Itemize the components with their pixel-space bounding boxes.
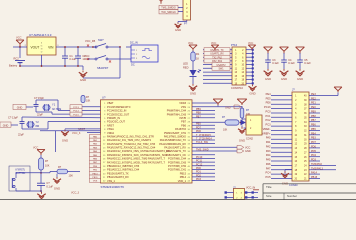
svg-text:GND: GND bbox=[190, 92, 196, 96]
svg-text:10K: 10K bbox=[45, 165, 50, 168]
svg-text:PD3: PD3 bbox=[311, 159, 316, 162]
svg-text:PB8: PB8 bbox=[196, 112, 201, 115]
svg-text:C?: C? bbox=[46, 181, 50, 185]
svg-text:PA13/USBDP/CAN_TX: PA13/USBDP/CAN_TX bbox=[160, 138, 187, 142]
svg-text:PE3: PE3 bbox=[311, 93, 316, 96]
svg-text:PD2: PD2 bbox=[196, 174, 201, 177]
svg-text:PC8/TIM8_CH3: PC8/TIM8_CH3 bbox=[168, 160, 187, 164]
svg-text:PC6/TIM8_CH1: PC6/TIM8_CH1 bbox=[168, 168, 187, 172]
svg-text:VSSA: VSSA bbox=[107, 127, 114, 131]
svg-text:PB1/ADC12_IN9/TIM3_CH4: PB1/ADC12_IN9/TIM3_CH4 bbox=[107, 168, 140, 172]
svg-text:PE4: PE4 bbox=[266, 92, 271, 96]
svg-text:0.1uF: 0.1uF bbox=[272, 61, 279, 65]
svg-text:10K: 10K bbox=[223, 129, 228, 132]
svg-text:PD6: PD6 bbox=[311, 145, 316, 148]
svg-text:PD4: PD4 bbox=[311, 154, 316, 157]
svg-text:PA6/ADC12_IN6/SPI1_MISO_TIM3: PA6/ADC12_IN6/SPI1_MISO_TIM3 PA6/USART_T bbox=[107, 157, 165, 161]
svg-text:PA5/ADC12_IN5/SPI1_SCK_USTNE: PA5/ADC12_IN5/SPI1_SCK_USTNE PA5/SPI1_SC… bbox=[107, 153, 167, 157]
svg-text:VSS: VSS bbox=[181, 105, 186, 109]
svg-text:PB6: PB6 bbox=[311, 124, 316, 127]
svg-text:Number: Number bbox=[287, 194, 297, 198]
svg-text:GND: GND bbox=[239, 139, 245, 143]
svg-text:PA5: PA5 bbox=[266, 158, 271, 162]
svg-text:10K: 10K bbox=[69, 175, 74, 178]
svg-text:PE2: PE2 bbox=[311, 97, 316, 100]
svg-text:PD6: PD6 bbox=[196, 130, 201, 133]
svg-text:VCC: VCC bbox=[245, 146, 250, 149]
svg-text:GND: GND bbox=[54, 187, 60, 191]
svg-text:22pF: 22pF bbox=[37, 113, 43, 117]
svg-text:PE6: PE6 bbox=[266, 101, 271, 105]
svg-text:PB3: PB3 bbox=[311, 137, 316, 140]
svg-text:GND: GND bbox=[249, 92, 255, 96]
svg-text:CON2: CON2 bbox=[246, 137, 254, 140]
svg-text:PA15/TDI: PA15/TDI bbox=[175, 127, 186, 131]
svg-text:PC11: PC11 bbox=[196, 160, 203, 163]
svg-text:VREF+: VREF+ bbox=[262, 131, 271, 135]
svg-text:LED: LED bbox=[183, 62, 188, 66]
svg-text:PA7: PA7 bbox=[266, 166, 271, 170]
svg-text:R1: R1 bbox=[196, 52, 200, 56]
svg-text:PA0WKUP/ADC12_IN0_TIM2_CH1_ETR: PA0WKUP/ADC12_IN0_TIM2_CH1_ETR bbox=[107, 135, 154, 139]
svg-text:TMS/PD2: TMS/PD2 bbox=[311, 163, 322, 166]
svg-text:PWM/USART_CH1: PWM/USART_CH1 bbox=[164, 131, 187, 135]
svg-text:RED: RED bbox=[183, 66, 189, 70]
svg-text:PD5: PD5 bbox=[311, 150, 316, 153]
svg-text:1K: 1K bbox=[196, 57, 199, 61]
svg-text:VOUT: VOUT bbox=[31, 46, 40, 50]
svg-text:GND: GND bbox=[17, 107, 23, 110]
svg-text:VDD_1: VDD_1 bbox=[178, 179, 187, 183]
svg-text:PA14: PA14 bbox=[311, 172, 318, 175]
svg-text:VIN: VIN bbox=[48, 46, 54, 50]
svg-text:PA10/USART1_RX: PA10/USART1_RX bbox=[164, 146, 186, 150]
svg-text:VCC_FB: VCC_FB bbox=[85, 39, 95, 43]
svg-text:PA0: PA0 bbox=[266, 136, 271, 140]
svg-text:VCC_IN: VCC_IN bbox=[246, 187, 255, 190]
svg-text:PC13/TAMPER-RTC: PC13/TAMPER-RTC bbox=[107, 105, 131, 109]
svg-text:PE5: PE5 bbox=[266, 96, 271, 100]
svg-text:8M: 8M bbox=[36, 124, 40, 128]
svg-text:SW?: SW? bbox=[98, 38, 104, 42]
svg-text:PD0WK_IN: PD0WK_IN bbox=[107, 116, 120, 120]
svg-text:T_JTCK/PA14: T_JTCK/PA14 bbox=[196, 138, 212, 141]
svg-text:PC1: PC1 bbox=[265, 114, 271, 118]
svg-text:PA2: PA2 bbox=[266, 144, 271, 148]
svg-text:PC7/TIM8_CH2: PC7/TIM8_CH2 bbox=[168, 164, 187, 168]
svg-text:RC2: RC2 bbox=[14, 57, 20, 61]
svg-text:PD3: PD3 bbox=[196, 178, 201, 181]
svg-text:PC12: PC12 bbox=[196, 163, 203, 166]
svg-text:PD7: PD7 bbox=[196, 126, 201, 129]
svg-text:C3: C3 bbox=[272, 58, 276, 62]
svg-text:GND: GND bbox=[281, 77, 287, 81]
svg-text:GND: GND bbox=[297, 77, 303, 81]
svg-text:PA1: PA1 bbox=[266, 140, 271, 144]
svg-text:DC: DC bbox=[131, 63, 135, 67]
svg-text:PA7/ADC12_IN7/SPI1_MOSI_TIM3: PA7/ADC12_IN7/SPI1_MOSI_TIM3 PA7/USART_T bbox=[107, 160, 165, 164]
svg-text:GND: GND bbox=[3, 124, 9, 127]
svg-text:PB6: PB6 bbox=[181, 123, 186, 127]
svg-text:GND: GND bbox=[245, 150, 251, 153]
svg-text:TCLK_SW: TCLK_SW bbox=[196, 141, 208, 144]
svg-text:PB7: PB7 bbox=[181, 120, 186, 124]
svg-text:SW1: SW1 bbox=[219, 69, 225, 71]
svg-text:PC9/TIM8_CH4: PC9/TIM8_CH4 bbox=[168, 157, 187, 161]
svg-text:PA3: PA3 bbox=[266, 149, 271, 153]
svg-text:Size: Size bbox=[266, 194, 272, 198]
svg-text:PB0/ADC12_IN8/TIM3_CH3: PB0/ADC12_IN8/TIM3_CH3 bbox=[107, 164, 140, 168]
svg-text:PB15: PB15 bbox=[311, 176, 318, 179]
svg-text:BUTTON: BUTTON bbox=[16, 172, 26, 175]
svg-text:PB5: PB5 bbox=[311, 128, 316, 131]
svg-text:PB7: PB7 bbox=[311, 119, 316, 122]
svg-text:PC4: PC4 bbox=[265, 171, 271, 175]
svg-text:STM32F103RCT6: STM32F103RCT6 bbox=[101, 185, 125, 189]
svg-text:PB10/USART3_TX: PB10/USART3_TX bbox=[107, 171, 129, 175]
svg-text:PD1: PD1 bbox=[196, 171, 201, 174]
svg-text:PA1/ADC12_IN1_TIM2_CH2_USART2: PA1/ADC12_IN1_TIM2_CH2_USART2 bbox=[107, 138, 152, 142]
svg-text:PA11/USBDM/CAN_RX: PA11/USBDM/CAN_RX bbox=[159, 142, 186, 146]
svg-text:PC2: PC2 bbox=[265, 118, 271, 122]
svg-text:PB14: PB14 bbox=[180, 175, 187, 179]
svg-text:PB4: PB4 bbox=[311, 132, 316, 135]
svg-text:PB15: PB15 bbox=[180, 171, 187, 175]
svg-text:PB7: PB7 bbox=[196, 115, 201, 118]
svg-text:PC3: PC3 bbox=[265, 123, 271, 127]
svg-text:VSS: VSS bbox=[93, 181, 98, 183]
svg-text:VCC_3: VCC_3 bbox=[71, 192, 80, 195]
svg-text:GND: GND bbox=[265, 77, 271, 81]
svg-text:C? 13pF: C? 13pF bbox=[8, 116, 18, 120]
svg-text:PB9: PB9 bbox=[196, 108, 201, 111]
svg-text:VBAT: VBAT bbox=[107, 101, 114, 105]
svg-text:PA6: PA6 bbox=[266, 162, 271, 166]
svg-text:G: G bbox=[41, 46, 43, 48]
svg-text:C1: C1 bbox=[69, 54, 73, 58]
svg-text:PA9/USART1_TX: PA9/USART1_TX bbox=[166, 149, 186, 153]
svg-text:PC10: PC10 bbox=[196, 156, 203, 159]
svg-text:PB9: PB9 bbox=[311, 111, 316, 114]
svg-text:K?(RST): K?(RST) bbox=[16, 169, 26, 172]
svg-text:PA3/USART2_RX/ADC12_IN3_TIM2_C: PA3/USART2_RX/ADC12_IN3_TIM2_CH4 bbox=[107, 146, 156, 150]
svg-text:0.1uF: 0.1uF bbox=[46, 184, 53, 188]
svg-text:P?16: P?16 bbox=[231, 43, 238, 47]
svg-text:INT/B: INT/B bbox=[179, 116, 186, 120]
svg-text:PA4: PA4 bbox=[266, 153, 271, 157]
svg-text:CONN?10: CONN?10 bbox=[231, 86, 243, 90]
svg-text:22pF: 22pF bbox=[18, 133, 24, 137]
svg-text:DC_IN: DC_IN bbox=[130, 41, 138, 45]
svg-text:PD1/OSC_OUT: PD1/OSC_OUT bbox=[107, 120, 125, 124]
svg-text:PA8/USART1_CK: PA8/USART1_CK bbox=[166, 153, 187, 157]
svg-text:TCK_SWCLK: TCK_SWCLK bbox=[161, 11, 176, 14]
svg-text:TMS_SWD: TMS_SWD bbox=[196, 149, 209, 152]
svg-text:TMS_SWDIO: TMS_SWDIO bbox=[161, 7, 176, 10]
svg-text:VCC: VCC bbox=[84, 54, 90, 58]
svg-text:GND: GND bbox=[175, 28, 181, 32]
svg-text:PC14/OSC32_IN: PC14/OSC32_IN bbox=[107, 109, 127, 113]
svg-text:0.1uF: 0.1uF bbox=[304, 61, 311, 65]
svg-text:VREF-: VREF- bbox=[263, 127, 271, 131]
svg-text:PA4/ADC12_IN4/SPI1_NSS_USTNE: PA4/ADC12_IN4/SPI1_NSS_USTNE PA4/USART2_… bbox=[107, 149, 170, 153]
svg-text:PC0: PC0 bbox=[265, 110, 271, 114]
svg-text:PWM/TIM4_CH3: PWM/TIM4_CH3 bbox=[167, 112, 187, 116]
svg-text:PC15: PC15 bbox=[73, 114, 79, 116]
svg-text:PC13: PC13 bbox=[264, 105, 271, 109]
svg-text:PE1: PE1 bbox=[311, 102, 316, 105]
svg-text:C4: C4 bbox=[288, 58, 292, 62]
svg-text:VCC_3: VCC_3 bbox=[72, 131, 81, 135]
svg-text:C? 15pF: C? 15pF bbox=[34, 96, 44, 100]
svg-text:VCC: VCC bbox=[16, 36, 22, 40]
svg-text:GND: GND bbox=[80, 78, 86, 82]
svg-text:GND: GND bbox=[62, 139, 68, 143]
svg-text:PD0: PD0 bbox=[196, 167, 201, 170]
svg-text:VDDA: VDDA bbox=[107, 131, 114, 135]
svg-text:PB11/USART3_RX: PB11/USART3_RX bbox=[107, 175, 129, 179]
svg-text:U? AMS1117-3.3: U? AMS1117-3.3 bbox=[29, 33, 52, 37]
svg-text:SB-DPDT: SB-DPDT bbox=[97, 66, 109, 70]
svg-text:PA13/TMS_SWDIO: PA13/TMS_SWDIO bbox=[164, 135, 186, 139]
svg-text:PD7: PD7 bbox=[311, 141, 316, 144]
svg-text:NRST: NRST bbox=[107, 123, 114, 127]
svg-text:10K: 10K bbox=[86, 100, 91, 103]
svg-text:VSS_1: VSS_1 bbox=[107, 179, 116, 183]
svg-text:U?: U? bbox=[102, 96, 106, 100]
svg-text:T_JTDI/PA15: T_JTDI/PA15 bbox=[196, 134, 211, 137]
svg-text:PA2/USART2_TX/ADC12_IN2_TIM2_C: PA2/USART2_TX/ADC12_IN2_TIM2_CH3 bbox=[107, 142, 156, 146]
svg-text:CON40: CON40 bbox=[289, 183, 298, 187]
svg-text:PB5: PB5 bbox=[196, 123, 201, 126]
svg-text:PB8: PB8 bbox=[311, 115, 316, 118]
svg-text:VDD3: VDD3 bbox=[179, 101, 186, 105]
svg-text:0.1uF: 0.1uF bbox=[288, 61, 295, 65]
svg-text:GND: GND bbox=[225, 107, 231, 110]
svg-text:PWM/TIM4_CH4: PWM/TIM4_CH4 bbox=[167, 109, 187, 113]
svg-text:PC5: PC5 bbox=[265, 175, 271, 179]
svg-text:Title: Title bbox=[266, 185, 272, 189]
svg-text:TMS/PA13: TMS/PA13 bbox=[311, 167, 324, 170]
svg-text:PC15/OSC32_OUT: PC15/OSC32_OUT bbox=[107, 112, 130, 116]
svg-text:PE0: PE0 bbox=[311, 106, 316, 109]
svg-text:C5: C5 bbox=[304, 58, 308, 62]
svg-text:Battery: Battery bbox=[9, 64, 18, 68]
